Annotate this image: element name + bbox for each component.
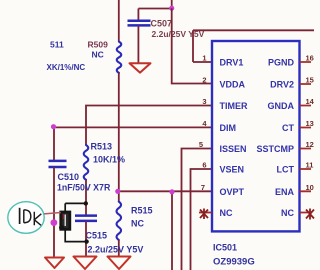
wire pin4 DIM net: [54, 127, 212, 160]
node junction: [51, 124, 56, 129]
svg-text:C507: C507: [151, 19, 173, 29]
ground: [130, 63, 151, 72]
leader line: [44, 213, 61, 214]
svg-text:16: 16: [306, 54, 314, 63]
pin numbers right: [306, 54, 315, 192]
resistor R513: [84, 145, 89, 180]
wire: [85, 180, 87, 215]
balloon text "1Dk": [19, 208, 21, 224]
pin stub left NC pin8: [199, 212, 212, 214]
annotation black wire bottom: [65, 229, 86, 241]
svg-text:5: 5: [199, 140, 203, 149]
svg-text:13: 13: [306, 119, 314, 128]
node junction: [169, 6, 174, 11]
wire: [53, 167, 55, 258]
svg-text:VSEN: VSEN: [220, 165, 245, 175]
svg-text:12: 12: [306, 140, 314, 149]
svg-text:NC: NC: [281, 208, 294, 218]
wire: [138, 0, 171, 20]
svg-text:SSTCMP: SSTCMP: [256, 144, 294, 154]
svg-text:3: 3: [202, 97, 206, 106]
svg-text:OZ9939G: OZ9939G: [213, 257, 255, 268]
pin names left: [220, 58, 248, 219]
svg-text:GNDA: GNDA: [268, 101, 295, 111]
svg-text:R513: R513: [91, 142, 113, 152]
wire pin5 ISSEN net: [182, 149, 212, 270]
svg-text:R509: R509: [88, 40, 109, 50]
ground: [74, 257, 97, 270]
svg-text:7: 7: [201, 183, 205, 192]
svg-text:LCT: LCT: [277, 165, 295, 175]
svg-text:2.2u/25V Y5V: 2.2u/25V Y5V: [88, 245, 144, 255]
svg-text:VDDA: VDDA: [220, 80, 246, 90]
svg-text:11: 11: [306, 161, 314, 170]
no-connect X pin8: [200, 209, 208, 220]
capacitor C510: [49, 161, 67, 167]
annotation component (marked part): [61, 212, 70, 229]
wire pin2 VDDA net: [172, 8, 212, 83]
svg-text:511: 511: [50, 40, 64, 50]
wire: [118, 73, 120, 202]
svg-text:ISSEN: ISSEN: [220, 144, 247, 154]
svg-text:DRV2: DRV2: [270, 80, 294, 90]
capacitor C515: [75, 216, 97, 221]
svg-text:14: 14: [306, 97, 315, 106]
resistor R509: [117, 42, 122, 73]
svg-text:IC501: IC501: [213, 243, 237, 253]
svg-text:10: 10: [306, 183, 314, 192]
svg-text:1nF/50V X7R: 1nF/50V X7R: [57, 183, 111, 193]
pin numbers left: [199, 54, 208, 192]
pin stubs right: [300, 62, 312, 213]
svg-text:TIMER: TIMER: [220, 101, 248, 111]
svg-text:6: 6: [202, 161, 206, 170]
svg-text:ENA: ENA: [275, 187, 295, 197]
svg-text:1: 1: [202, 54, 206, 63]
svg-text:NC: NC: [92, 50, 104, 60]
svg-text:10K/1%: 10K/1%: [93, 155, 125, 165]
resistor R515: [117, 202, 122, 240]
svg-text:NC: NC: [131, 219, 144, 229]
node junction: [51, 219, 58, 226]
wire pin7 OVPT net: [118, 191, 212, 270]
ground: [108, 257, 131, 270]
wire: [85, 221, 87, 257]
wire pin3 TIMER net: [86, 106, 212, 146]
svg-text:C515: C515: [86, 231, 108, 241]
no-connect X pin9: [306, 209, 314, 220]
wire: [118, 0, 120, 42]
capacitor C507: [128, 21, 151, 26]
svg-text:15: 15: [306, 76, 314, 85]
svg-text:2: 2: [202, 76, 206, 85]
svg-text:NC: NC: [220, 208, 233, 218]
pin names right: [256, 58, 294, 219]
wire pin1 DRV1 net: [193, 30, 314, 62]
svg-text:C510: C510: [58, 172, 80, 182]
svg-text:R515: R515: [131, 206, 153, 216]
ground: [45, 258, 64, 269]
op-amp U1 : IC box IC501: [212, 41, 300, 231]
wire pin6 VSEN net: [191, 169, 212, 270]
annotation balloon callout: [8, 202, 44, 234]
annotation black wire top: [65, 203, 86, 212]
svg-text:PGND: PGND: [268, 58, 295, 68]
node junction: [169, 189, 174, 194]
svg-text:XK/1%/NC: XK/1%/NC: [47, 63, 86, 72]
svg-text:CT: CT: [282, 123, 294, 133]
svg-text:OVPT: OVPT: [220, 187, 245, 197]
svg-text:DRV1: DRV1: [220, 58, 244, 68]
node junction: [115, 189, 120, 194]
wire: [137, 25, 139, 62]
svg-text:DIM: DIM: [220, 123, 237, 133]
wire: [118, 240, 120, 257]
